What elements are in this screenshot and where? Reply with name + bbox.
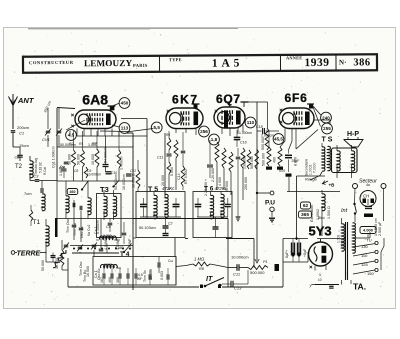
- svg-text:·3: ·3: [318, 273, 321, 277]
- svg-text:+B: +B: [329, 183, 336, 188]
- svg-text:C18: C18: [256, 125, 263, 129]
- svg-text:1.000cm: 1.000cm: [239, 131, 252, 135]
- svg-text:LEMOUZY: LEMOUZY: [84, 58, 133, 68]
- svg-text:H-P: H-P: [347, 131, 359, 138]
- svg-text:R1: R1: [79, 142, 84, 146]
- svg-text:0.010: 0.010: [341, 239, 345, 247]
- svg-text:10: 10: [318, 278, 322, 282]
- svg-text:TERRE: TERRE: [17, 251, 41, 258]
- svg-text:R20: R20: [279, 169, 285, 173]
- svg-text:1.000: 1.000: [88, 143, 97, 147]
- svg-text:ANT: ANT: [17, 96, 35, 105]
- svg-text:Trim 5c: Trim 5c: [143, 270, 147, 282]
- svg-text:P.U: P.U: [265, 200, 275, 207]
- svg-text:1.000: 1.000: [59, 167, 63, 176]
- svg-text:C2: C2: [168, 222, 172, 226]
- svg-text:255: 255: [323, 126, 331, 131]
- svg-text:62: 62: [303, 203, 309, 209]
- svg-text:460: 460: [108, 277, 112, 283]
- svg-text:50.000: 50.000: [41, 260, 45, 271]
- svg-text:T 5: T 5: [148, 187, 158, 194]
- svg-text:N·: N·: [339, 58, 346, 66]
- svg-text:C16: C16: [240, 141, 247, 145]
- svg-text:240: 240: [322, 115, 330, 120]
- svg-text:50.103cm: 50.103cm: [139, 226, 156, 230]
- svg-text:10.000 Ω: 10.000 Ω: [132, 173, 136, 188]
- svg-text:5.000: 5.000: [170, 167, 174, 176]
- svg-text:TU: TU: [367, 239, 372, 243]
- svg-text:0.000: 0.000: [103, 234, 112, 238]
- svg-text:Ca 1: Ca 1: [94, 270, 98, 278]
- svg-text:C9: C9: [87, 169, 91, 173]
- svg-text:5Y3: 5Y3: [309, 224, 332, 239]
- svg-text:Trim Osc: Trim Osc: [79, 261, 83, 276]
- svg-text:CH: CH: [363, 194, 370, 199]
- svg-text:0002: 0002: [104, 263, 112, 267]
- svg-text:450: 450: [121, 101, 129, 106]
- svg-text:4.000: 4.000: [218, 177, 222, 186]
- svg-text:ANNÉE: ANNÉE: [286, 55, 302, 60]
- svg-text:2.000cm: 2.000cm: [261, 134, 274, 138]
- svg-text:CV1: CV1: [42, 137, 50, 142]
- svg-text:1.400cm: 1.400cm: [120, 156, 124, 170]
- svg-text:15cm: 15cm: [19, 143, 29, 148]
- svg-text:T1: T1: [33, 219, 41, 226]
- svg-text:50.000: 50.000: [77, 154, 81, 165]
- svg-text:256: 256: [200, 129, 208, 134]
- svg-text:10.500: 10.500: [86, 266, 90, 277]
- svg-text:Tension Avg: Tension Avg: [34, 158, 38, 175]
- svg-text:250.000: 250.000: [244, 177, 248, 190]
- svg-text:Excitation: Excitation: [309, 205, 314, 222]
- svg-text:4.000: 4.000: [363, 227, 374, 232]
- svg-text:T S: T S: [322, 137, 333, 144]
- svg-text:500.000: 500.000: [262, 153, 266, 166]
- svg-text:1.500 Ω: 1.500 Ω: [327, 206, 331, 219]
- svg-text:10.000: 10.000: [91, 154, 95, 165]
- svg-text:500.000: 500.000: [250, 270, 265, 275]
- svg-text:R.Cat: R.Cat: [43, 167, 47, 175]
- svg-text:Trim Osc: Trim Osc: [66, 218, 70, 233]
- svg-text:230.000: 230.000: [243, 156, 247, 169]
- svg-text:6A8: 6A8: [82, 92, 108, 108]
- svg-text:6.450cm: 6.450cm: [96, 220, 100, 234]
- svg-text:Cω: Cω: [168, 259, 173, 263]
- svg-text:C14: C14: [177, 173, 181, 180]
- svg-text:R6: R6: [166, 133, 170, 137]
- svg-text:T2: T2: [15, 164, 23, 170]
- svg-text:P1: P1: [263, 260, 268, 264]
- svg-text:150: 150: [367, 271, 374, 276]
- svg-text:10.000cm: 10.000cm: [231, 255, 249, 260]
- svg-text:8µF+: 8µF+: [285, 250, 289, 258]
- svg-text:C13: C13: [234, 286, 242, 291]
- svg-text:1.0002: 1.0002: [316, 209, 320, 220]
- svg-text:386: 386: [116, 277, 120, 283]
- svg-text:200cm: 200cm: [17, 125, 30, 130]
- svg-text:C1: C1: [19, 131, 24, 136]
- svg-text:500.000: 500.000: [250, 156, 254, 169]
- svg-text:5,5: 5,5: [154, 125, 161, 130]
- svg-text:500.000: 500.000: [261, 137, 265, 150]
- svg-text:6Q7: 6Q7: [216, 92, 241, 106]
- svg-text:TYPE: TYPE: [169, 57, 182, 62]
- svg-text:1939: 1939: [304, 57, 329, 69]
- svg-text:C11: C11: [233, 272, 240, 277]
- svg-text:C11: C11: [157, 156, 163, 160]
- svg-text:50.000cm: 50.000cm: [60, 143, 76, 147]
- svg-text:460: 460: [273, 157, 277, 163]
- svg-text:CONSTRUCTEUR: CONSTRUCTEUR: [29, 60, 74, 65]
- svg-text:110: 110: [247, 120, 255, 125]
- svg-text:T3: T3: [100, 185, 109, 194]
- svg-text:7cm: 7cm: [24, 191, 32, 196]
- svg-text:PARIS: PARIS: [133, 63, 148, 68]
- svg-text:20.000: 20.000: [225, 181, 229, 192]
- svg-text:6.450: 6.450: [115, 246, 124, 250]
- svg-text:10.000cm: 10.000cm: [122, 174, 126, 190]
- svg-text:C8: C8: [74, 169, 78, 173]
- svg-text:0.003: 0.003: [160, 271, 164, 280]
- svg-text:6a Cv2: 6a Cv2: [87, 225, 91, 236]
- svg-text:45,5: 45,5: [274, 137, 283, 142]
- svg-text:+8µF: +8µF: [303, 248, 307, 257]
- svg-text:10.000cm: 10.000cm: [87, 173, 101, 177]
- svg-text:5.18 0C: 5.18 0C: [39, 161, 43, 173]
- svg-text:IT: IT: [206, 276, 213, 283]
- svg-text:4a: 4a: [366, 183, 370, 187]
- svg-text:113: 113: [121, 126, 129, 131]
- svg-text:1,8: 1,8: [211, 137, 218, 142]
- svg-text:2.20.000: 2.20.000: [211, 168, 215, 182]
- svg-text:WF: WF: [137, 277, 142, 281]
- svg-text:167: 167: [100, 277, 104, 283]
- svg-text:C12: C12: [130, 169, 136, 173]
- svg-text:8.000: 8.000: [294, 157, 298, 166]
- svg-text:2.500 µF: 2.500 µF: [378, 221, 382, 236]
- svg-text:4,5/WF: 4,5/WF: [128, 238, 132, 250]
- svg-text:Rouge: Rouge: [305, 177, 318, 182]
- svg-text:460: 460: [70, 190, 76, 194]
- svg-text:7.0000: 7.0000: [313, 163, 317, 173]
- svg-text:2.20.000 +: 2.20.000 +: [204, 179, 208, 196]
- svg-text:20.000: 20.000: [161, 175, 165, 186]
- svg-text:6F6: 6F6: [285, 91, 308, 105]
- svg-text:Int: Int: [341, 208, 348, 214]
- svg-text:R7 5.000: R7 5.000: [184, 169, 188, 184]
- svg-text:1 A 5: 1 A 5: [212, 58, 240, 70]
- svg-text:TA.: TA.: [353, 282, 366, 292]
- svg-text:386: 386: [353, 57, 370, 68]
- svg-text:1 MΩ: 1 MΩ: [194, 257, 205, 262]
- svg-text:Cg1 1.00Kcm: Cg1 1.00Kcm: [52, 146, 56, 168]
